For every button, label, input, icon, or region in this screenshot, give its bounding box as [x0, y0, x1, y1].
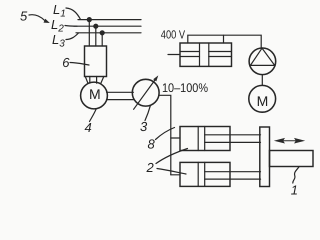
leader from 2 to upper piston	[156, 149, 188, 164]
svg-text:6: 6	[62, 55, 70, 70]
label 2	[146, 160, 155, 175]
shaft coupling lines	[107, 92, 134, 99]
label L2	[51, 17, 64, 35]
variable pump 3 circle	[132, 79, 159, 106]
svg-text:M: M	[257, 93, 269, 109]
svg-text:L3: L3	[52, 32, 65, 50]
leader from 8	[156, 128, 175, 140]
wire to upper cylinder	[171, 137, 180, 139]
valve right section lines	[209, 52, 232, 57]
leader from 4	[90, 109, 97, 121]
wire drop from L1 to converter	[88, 20, 90, 46]
upper cylinder piston	[198, 127, 205, 151]
lower cylinder 2 body	[180, 162, 230, 186]
svg-text:M: M	[89, 86, 101, 102]
wire to lower cylinder	[171, 174, 180, 176]
upper piston rod	[205, 135, 261, 143]
wire drop from L2 to converter	[95, 26, 97, 46]
wire L3 line	[76, 32, 141, 34]
wire valve solenoid tick	[223, 35, 225, 43]
leader arrow from 5	[29, 15, 50, 23]
motor M (pump drive) letter	[257, 93, 269, 109]
wire drop from L3 to converter	[101, 33, 103, 46]
valve left port stub	[168, 54, 180, 56]
leader from 3	[145, 106, 150, 121]
svg-text:2: 2	[146, 160, 155, 175]
svg-text:8: 8	[148, 137, 156, 152]
label 1	[291, 183, 298, 198]
leader from L1	[66, 8, 81, 19]
check valve triangle	[250, 48, 274, 65]
label 400 V	[161, 28, 185, 42]
leader from L2	[65, 25, 77, 28]
valve divider right	[208, 43, 210, 66]
wire pump output	[159, 95, 171, 175]
leader from L3	[66, 33, 79, 40]
lower cylinder piston	[198, 162, 205, 186]
svg-text:4: 4	[85, 120, 92, 135]
label 8	[148, 137, 156, 152]
valve divider left	[199, 43, 201, 66]
upper cylinder 8 body	[180, 127, 230, 151]
crosshead plate	[260, 127, 270, 187]
leader from 6	[70, 63, 89, 66]
valve left section lines	[180, 52, 200, 57]
frequency converter 6	[85, 46, 107, 77]
motor M4 letter	[89, 86, 101, 102]
label L3	[52, 32, 65, 50]
label 6	[62, 55, 70, 70]
leader from 2 to lower piston	[157, 169, 186, 175]
wire L2 line	[74, 25, 141, 27]
wire 400V supply	[188, 35, 261, 48]
svg-text:1: 1	[291, 183, 298, 198]
label 5	[20, 9, 28, 24]
motor M4 circle	[81, 82, 108, 109]
svg-text:10–100%: 10–100%	[162, 81, 208, 95]
motor leads (converter to motor)	[85, 77, 104, 84]
squiggle leader from 1	[293, 167, 299, 184]
label 10-100%	[162, 81, 208, 95]
svg-text:5: 5	[20, 9, 28, 24]
output rod 1	[270, 151, 314, 167]
label 3	[140, 119, 148, 134]
check valve circle	[249, 48, 276, 75]
wire check valve to motor	[261, 75, 263, 85]
junction dot on L1	[87, 18, 91, 22]
motor M (pump drive) circle	[249, 85, 276, 112]
svg-text:3: 3	[140, 119, 148, 134]
double motion arrow	[274, 138, 305, 144]
wire L1 line	[78, 19, 141, 21]
junction dot on L3	[100, 31, 104, 35]
junction dot on L2	[94, 24, 98, 28]
lower piston rod	[205, 172, 261, 179]
valve block	[180, 43, 232, 66]
label 4	[85, 120, 92, 135]
label L1	[53, 2, 66, 20]
svg-text:400 V: 400 V	[161, 28, 185, 42]
pump variable arrow	[134, 75, 159, 109]
